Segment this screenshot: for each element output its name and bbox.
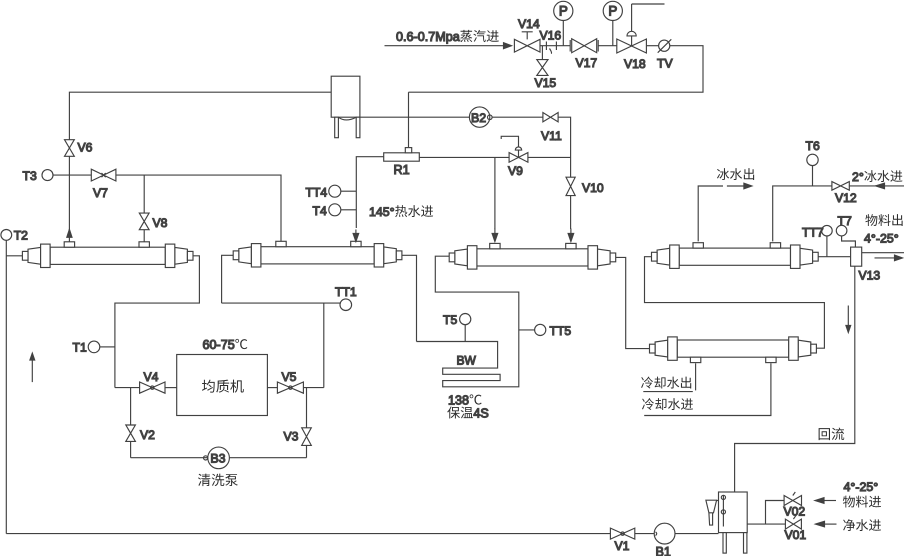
pipe: V6 to exchanger E1 nozzle <box>68 156 70 242</box>
svg-text:V17: V17 <box>576 56 598 70</box>
svg-text:TT5: TT5 <box>550 324 572 338</box>
svg-text:V10: V10 <box>582 181 604 195</box>
svg-text:V02: V02 <box>784 505 806 519</box>
valve V4 <box>115 387 140 389</box>
svg-text:V15: V15 <box>535 76 557 90</box>
svg-text:T6: T6 <box>806 139 820 153</box>
valve V3 <box>306 445 308 457</box>
valve V2 <box>126 425 136 441</box>
svg-text:T4: T4 <box>313 204 327 218</box>
svg-text:V7: V7 <box>93 186 108 200</box>
pipe: bottom CIP/feed line <box>6 533 718 535</box>
junction <box>407 116 410 119</box>
heat exchanger E1 <box>22 242 193 268</box>
valve V13 <box>851 247 862 266</box>
pressure gauge P (1) <box>562 21 564 46</box>
pipe: steam inlet label line with arrow <box>385 45 504 47</box>
svg-text:TV: TV <box>657 57 673 71</box>
valve V10 <box>566 177 575 195</box>
svg-text:V18: V18 <box>624 57 646 71</box>
instrument TT5 <box>519 329 535 331</box>
svg-text:4S: 4S <box>473 407 488 421</box>
valve V15 and tee <box>541 46 543 60</box>
svg-text:T5: T5 <box>443 313 457 327</box>
svg-text:V16: V16 <box>540 29 562 43</box>
label cooling water in <box>642 398 654 410</box>
heater R1 <box>384 153 420 161</box>
thermal valve TV <box>646 45 658 47</box>
svg-text:B1: B1 <box>656 545 671 556</box>
svg-text:P: P <box>608 4 617 19</box>
svg-text:BW: BW <box>457 354 477 368</box>
svg-text:V12: V12 <box>835 191 857 205</box>
pipe: drop to V2 <box>130 388 132 425</box>
pipe: V5 riser to E2 <box>323 303 325 388</box>
pipe: E2 right to holding coil BW <box>402 255 417 341</box>
holding coil BW serpentine <box>417 256 519 387</box>
svg-text:TT4: TT4 <box>306 186 328 200</box>
valve V8 <box>139 213 149 230</box>
svg-text:V14: V14 <box>518 17 540 31</box>
heat exchanger E4 <box>652 243 819 269</box>
pipe: B2 suction from tank <box>360 116 470 118</box>
pipe: E2 left stub loop with TT1 <box>222 255 340 303</box>
svg-text:V6: V6 <box>78 141 93 155</box>
top balance tank <box>331 76 360 138</box>
heat exchanger E3 <box>449 243 615 269</box>
control valve V18 with actuator <box>632 4 665 33</box>
svg-text:V3: V3 <box>284 430 299 444</box>
svg-text:4°-25°: 4°-25° <box>844 480 879 494</box>
valve V14 <box>522 32 533 40</box>
heat exchanger E2 <box>233 241 402 267</box>
svg-text:V01: V01 <box>785 528 807 542</box>
pipe: V7 to E2 left nozzle <box>116 175 281 242</box>
svg-text:B3: B3 <box>210 452 225 466</box>
pipe: B2 to V11 <box>492 116 543 118</box>
label cooling water out <box>695 363 697 390</box>
svg-text:TT1: TT1 <box>335 285 357 299</box>
svg-text:4°-25°: 4°-25° <box>864 232 899 246</box>
pipe: product outlet <box>862 252 904 254</box>
svg-text:T1: T1 <box>73 341 87 355</box>
valve V01 and clean water inlet <box>747 523 785 525</box>
pipe: steam line to return header <box>409 46 704 92</box>
valve V02 and material inlet <box>766 501 785 525</box>
pipe: drop to E3 left nozzle <box>494 157 496 229</box>
valve V17 <box>570 40 598 52</box>
level gauge <box>722 495 724 527</box>
svg-text:V8: V8 <box>153 216 168 230</box>
svg-text:V11: V11 <box>541 129 562 143</box>
valve V7 <box>69 174 91 176</box>
svg-text:V9: V9 <box>508 164 523 178</box>
pipe: R1 outlet to E2 right nozzle <box>356 157 383 228</box>
pipe: branch to V8 <box>143 175 145 213</box>
pipe: R1 to V9 <box>419 156 509 158</box>
valve V11 <box>543 113 558 122</box>
pipe: ice water out of E4 <box>698 186 723 241</box>
svg-text:V1: V1 <box>615 539 630 553</box>
cleaning pump B3 <box>131 457 208 459</box>
svg-text:R1: R1 <box>394 163 410 177</box>
svg-text:B2: B2 <box>471 111 486 125</box>
svg-text:145°: 145° <box>369 205 395 219</box>
svg-text:0.6-0.7Mpa: 0.6-0.7Mpa <box>396 30 460 44</box>
pipe: V11 to V10 drop <box>558 117 571 177</box>
pump B1 <box>654 523 675 544</box>
pipe: V10 to E3 nozzle <box>570 196 572 229</box>
pipe: header down to R1 <box>408 92 410 147</box>
pipe: E3 right to E5 left <box>616 257 650 348</box>
pipe: V9 to junction <box>528 156 571 158</box>
flex joint V16 <box>540 45 570 47</box>
svg-text:P: P <box>559 4 568 19</box>
valve V6 <box>65 140 75 157</box>
valve V12 <box>832 182 849 191</box>
svg-text:V13: V13 <box>859 269 881 283</box>
pipe: return line to bottom tank <box>735 266 855 492</box>
svg-text:60-75: 60-75 <box>203 338 235 352</box>
svg-text:138: 138 <box>448 394 469 408</box>
homogenizer box <box>177 355 268 416</box>
bottom feed tank <box>719 492 748 553</box>
svg-text:TT7: TT7 <box>802 226 824 240</box>
pressure gauge P (2) <box>598 21 617 46</box>
pipe: tank to V6 drop <box>69 92 331 139</box>
pipe: ice water in with V12 <box>849 185 904 187</box>
svg-text:V2: V2 <box>140 428 155 442</box>
pump B2 <box>469 107 489 127</box>
control valve V9 <box>509 153 528 163</box>
funnel <box>706 500 717 525</box>
pipe: E4 right to V13 <box>818 256 850 258</box>
valve V5 <box>267 387 277 389</box>
flow arrow up <box>68 229 70 237</box>
svg-text:V5: V5 <box>282 370 297 384</box>
floating flow arrow up <box>31 360 33 382</box>
svg-text:T3: T3 <box>23 169 37 183</box>
svg-text:T2: T2 <box>14 229 28 243</box>
pipe: E1 right to homogenizer loop <box>115 256 199 388</box>
heat exchanger E5 <box>650 337 817 363</box>
svg-text:2°: 2° <box>852 170 864 184</box>
pipe: E4 left to E5 right <box>645 257 825 349</box>
valve V1 on bottom line <box>610 528 634 539</box>
svg-text:V4: V4 <box>144 370 159 384</box>
